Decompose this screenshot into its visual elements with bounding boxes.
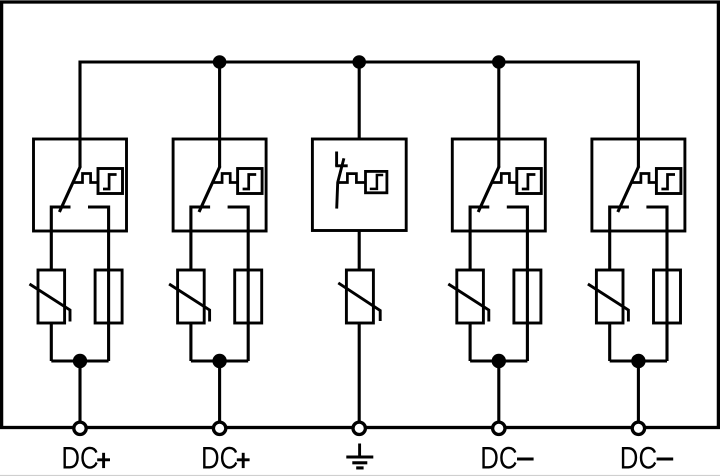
svg-text:DC: DC [480,441,517,476]
svg-text:DC: DC [620,441,657,476]
svg-text:DC: DC [201,441,238,476]
svg-text:DC: DC [61,441,98,476]
